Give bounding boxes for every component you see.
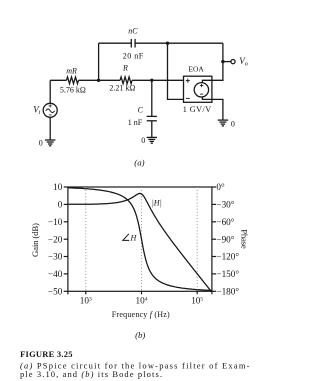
- label angle H: [123, 234, 138, 243]
- node Vo junction: [221, 60, 224, 63]
- wire Vi to mR: [50, 79, 66, 81]
- ground (below C): [147, 137, 157, 143]
- node feedback junction: [166, 42, 169, 45]
- svg-text:−180°: −180°: [216, 287, 239, 297]
- node B junction: [150, 79, 153, 82]
- wire op-amp out- to ground: [212, 99, 223, 120]
- wire feedback top down to Vo node: [222, 43, 224, 61]
- svg-text:0: 0: [141, 136, 145, 145]
- svg-text:0: 0: [58, 200, 63, 210]
- svg-text:0°: 0°: [216, 182, 225, 192]
- curve phase: [68, 188, 212, 291]
- wire node B down to C: [151, 80, 153, 116]
- svg-text:ple 3.10, and (b) its Bode plo: ple 3.10, and (b) its Bode plots.: [20, 369, 162, 379]
- svg-text:−90°: −90°: [216, 234, 234, 244]
- resistor mR: [60, 66, 86, 94]
- bottom axis ticks: [68, 291, 212, 294]
- wire feedback down to inverting input: [168, 43, 184, 99]
- wire feedback left: [99, 42, 132, 44]
- gridline 1e5: [196, 187, 198, 291]
- op-amp U1 EOA: [183, 64, 212, 114]
- svg-text:−150°: −150°: [216, 269, 239, 279]
- svg-text:C: C: [138, 106, 144, 115]
- right axis ticks: [212, 187, 216, 291]
- svg-text:mR: mR: [66, 66, 77, 75]
- svg-text:Frequency f (Hz): Frequency f (Hz): [112, 310, 170, 319]
- left axis ticks: [64, 187, 68, 291]
- voltage source Vi: [43, 103, 57, 117]
- svg-text:FIGURE 3.25: FIGURE 3.25: [20, 349, 72, 359]
- svg-text:nC: nC: [128, 26, 138, 35]
- resistor R: [109, 63, 135, 92]
- svg-text:−40: −40: [48, 269, 63, 279]
- svg-text:2.21 kΩ: 2.21 kΩ: [109, 84, 135, 93]
- wire op-amp out+ to Vo node: [212, 62, 223, 81]
- capacitor C: [128, 106, 157, 127]
- gridline 1e3: [85, 187, 87, 291]
- svg-text:Phase: Phase: [240, 229, 250, 249]
- gridline 1e4: [141, 187, 143, 291]
- svg-text:0: 0: [231, 119, 235, 128]
- wire node A up: [98, 43, 100, 80]
- ground (below Vi): [45, 140, 55, 146]
- svg-text:−10: −10: [48, 217, 63, 227]
- curve |H| magnitude: [68, 193, 211, 291]
- wire mR to R: [79, 79, 121, 81]
- svg-text:(a): (a): [134, 157, 144, 167]
- svg-text:R: R: [122, 63, 128, 72]
- svg-text:1 GV/V: 1 GV/V: [183, 105, 212, 114]
- Bode plot frame: [68, 187, 212, 291]
- ground (op-amp out-): [218, 120, 228, 126]
- svg-text:5.76 kΩ: 5.76 kΩ: [60, 86, 86, 95]
- wire C to ground: [151, 121, 153, 138]
- svg-text:−120°: −120°: [216, 252, 239, 262]
- capacitor nC: [123, 26, 144, 60]
- svg-text:EOA: EOA: [188, 64, 204, 73]
- svg-text:−30: −30: [48, 252, 63, 262]
- wire Vi bottom: [49, 117, 51, 140]
- wire feedback right: [135, 42, 223, 44]
- svg-text:−50: −50: [48, 287, 63, 297]
- svg-text:|H|: |H|: [152, 199, 162, 208]
- svg-text:−20: −20: [48, 234, 63, 244]
- node A junction: [97, 79, 100, 82]
- x axis labels: [80, 296, 204, 306]
- svg-text:(b): (b): [135, 330, 145, 340]
- svg-text:1 nF: 1 nF: [128, 118, 143, 127]
- wire Vo stub: [223, 61, 231, 63]
- left axis labels: [48, 182, 63, 296]
- svg-text:Gain (dB): Gain (dB): [30, 223, 40, 257]
- output terminal Vo: [231, 60, 235, 64]
- svg-text:20 nF: 20 nF: [123, 52, 144, 61]
- svg-text:0: 0: [39, 138, 43, 147]
- wire R to op-amp + input: [132, 79, 183, 81]
- svg-text:−60°: −60°: [216, 217, 234, 227]
- svg-text:−30°: −30°: [216, 200, 234, 210]
- svg-text:10: 10: [53, 182, 63, 192]
- right axis labels: [216, 182, 239, 296]
- wire Vi top: [49, 80, 51, 103]
